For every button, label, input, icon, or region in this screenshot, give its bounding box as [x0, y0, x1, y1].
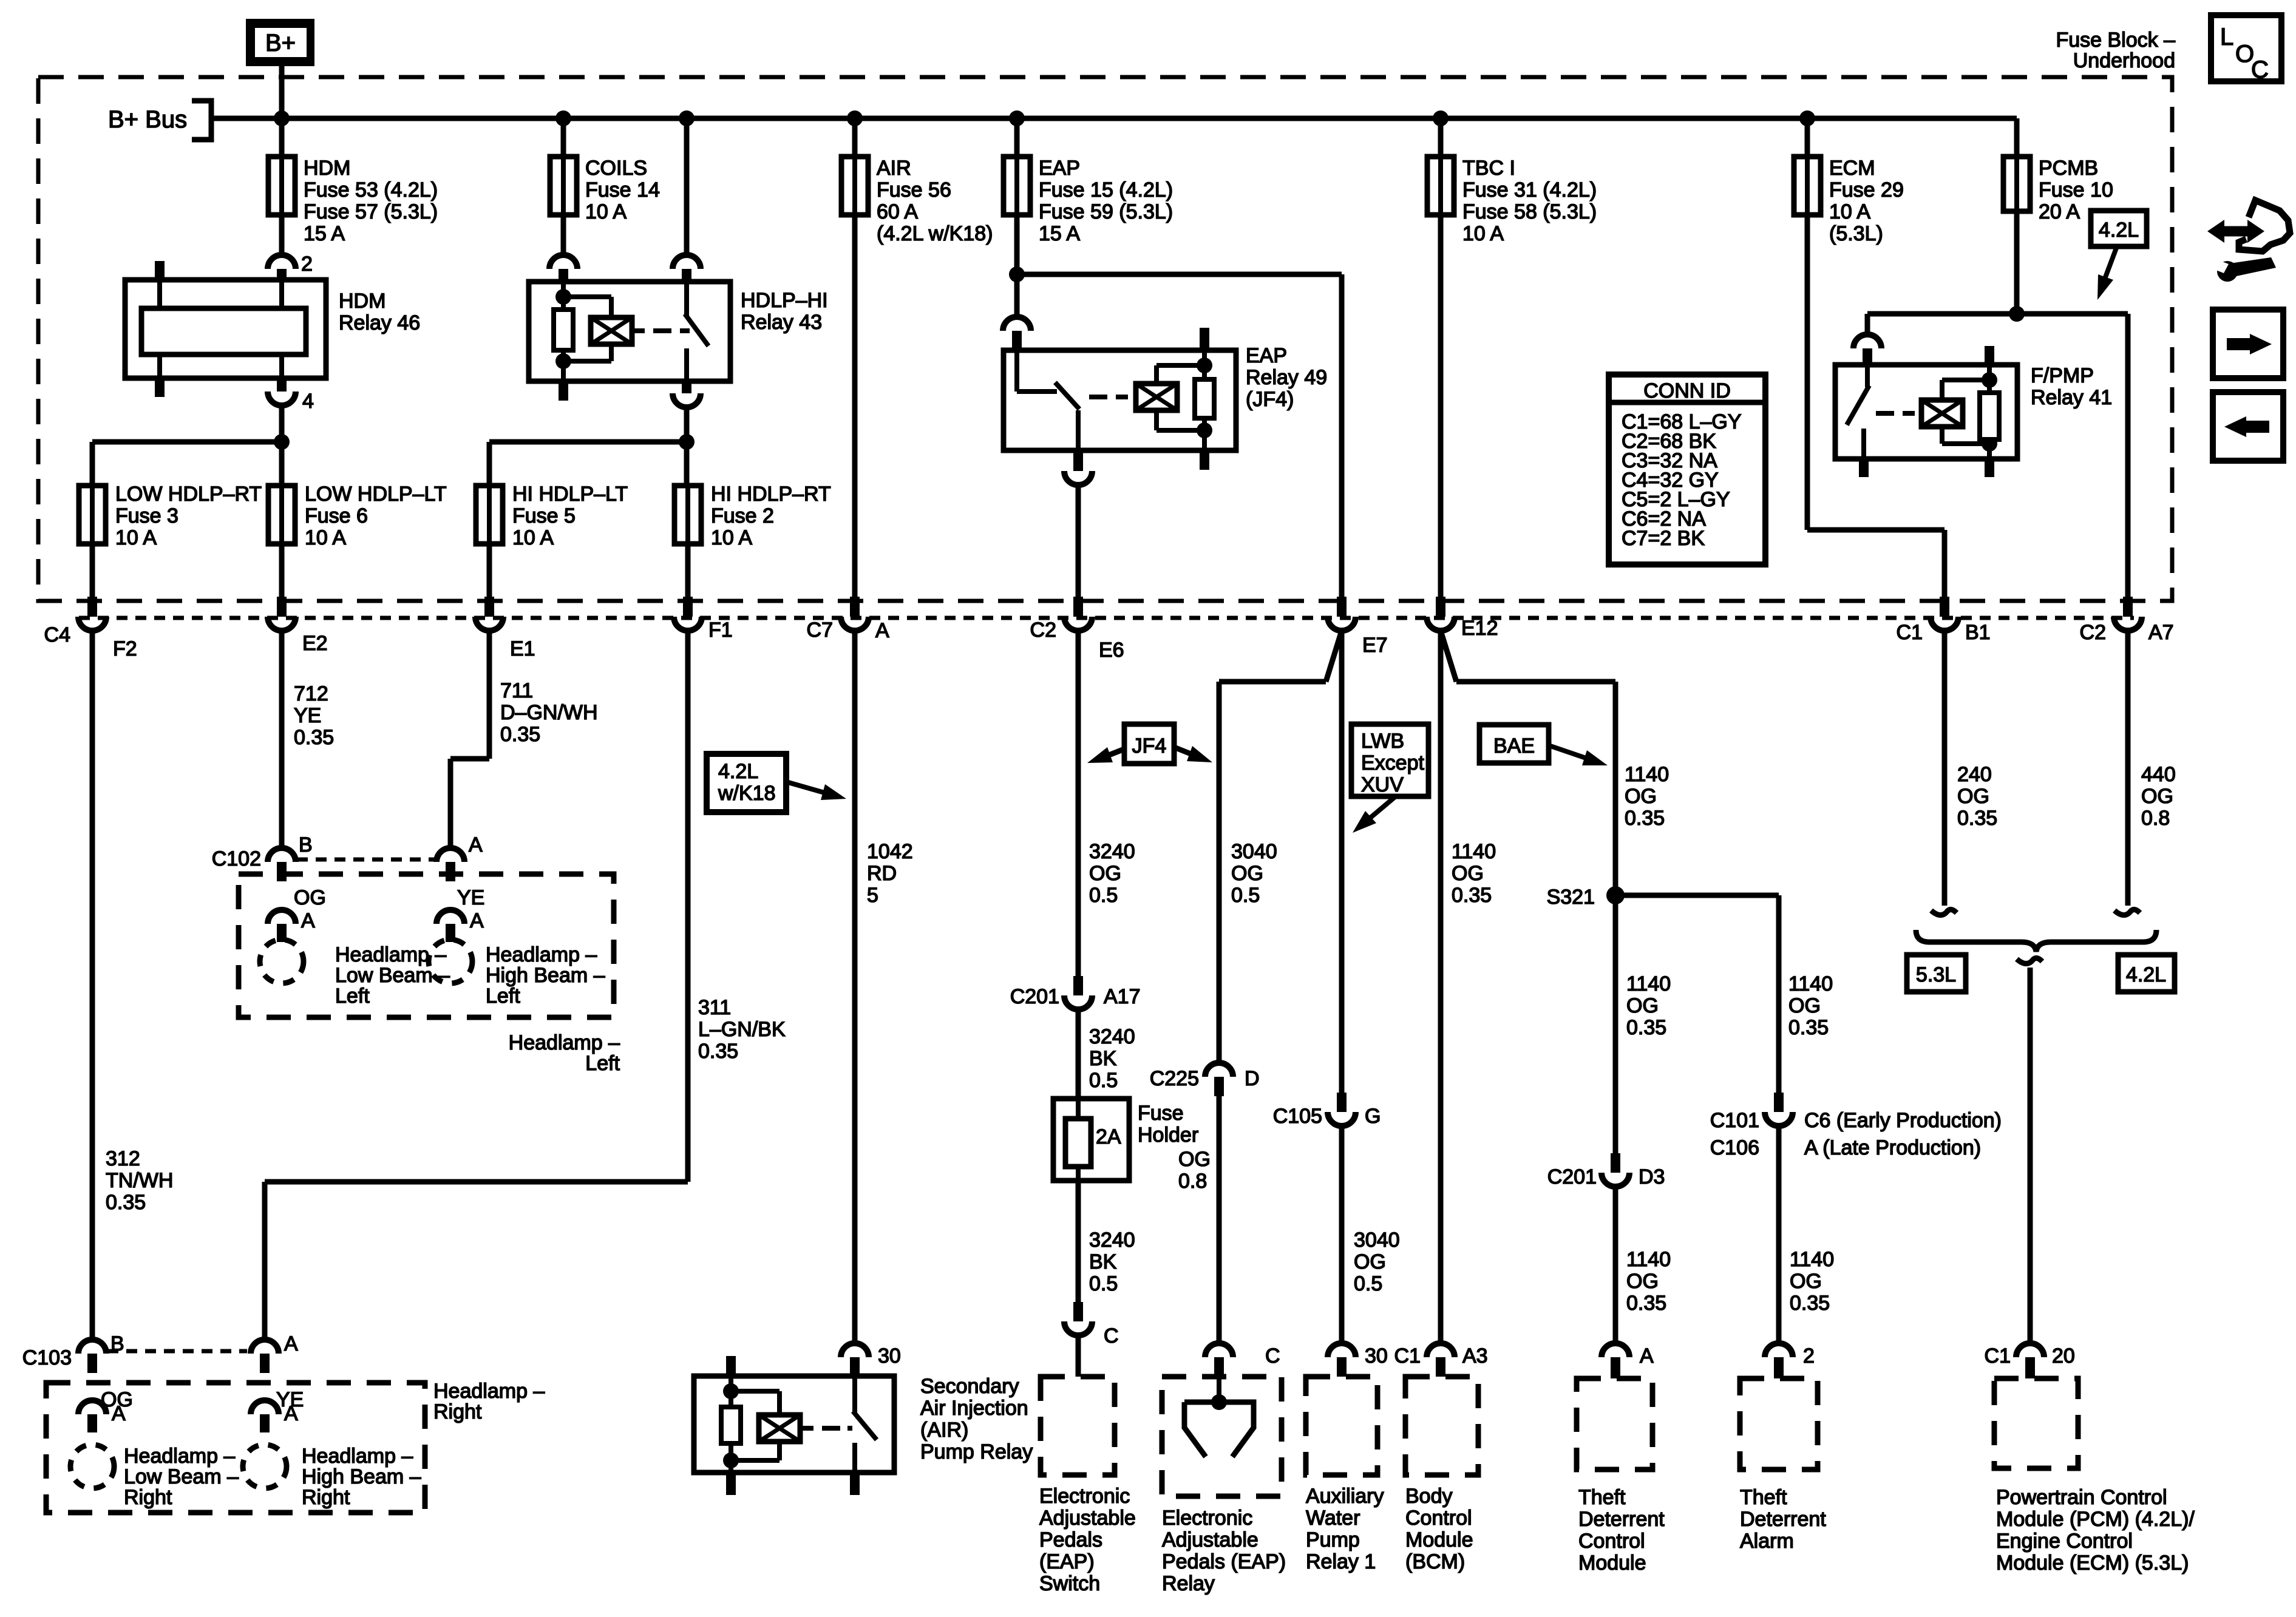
svg-text:HI HDLP–RT: HI HDLP–RT	[711, 483, 831, 506]
connector relay49 switch pin	[1003, 317, 1031, 331]
svg-text:OG: OG	[1788, 994, 1821, 1017]
svg-text:Relay 49: Relay 49	[1246, 366, 1327, 389]
resistor relay41 coil	[1987, 380, 1992, 393]
callout box 4.2L	[2091, 211, 2147, 246]
svg-text:20 A: 20 A	[2039, 200, 2080, 223]
svg-text:Theft: Theft	[1740, 1486, 1787, 1509]
svg-text:Fuse 15 (4.2L): Fuse 15 (4.2L)	[1039, 178, 1173, 202]
relay46 left pin inner	[157, 282, 162, 308]
svg-text:0.35: 0.35	[1626, 1016, 1666, 1039]
relay41 coil top stub	[1987, 365, 1992, 380]
svg-text:Fuse 29: Fuse 29	[1829, 178, 1904, 202]
wire 311 circuit	[685, 631, 691, 1182]
fuse LOW HDLP-LT Fuse 6	[268, 486, 295, 544]
svg-text:OG: OG	[1625, 785, 1657, 808]
svg-text:5.3L: 5.3L	[1916, 963, 1956, 986]
svg-text:30: 30	[1365, 1344, 1388, 1368]
node bus-EAP	[1009, 110, 1025, 126]
C102 dotted link	[297, 858, 435, 862]
wire ECM fuse down-jog	[1805, 215, 1810, 530]
connector AIR relay 30	[841, 1343, 869, 1357]
wire bus to relay43 switch	[684, 118, 690, 255]
svg-text:Holder: Holder	[1138, 1124, 1198, 1147]
svg-text:OG: OG	[1957, 785, 1989, 808]
svg-text:0.35: 0.35	[500, 723, 540, 746]
arrow 4.2L w/K18	[786, 782, 833, 795]
callout box BAE	[1479, 725, 1549, 763]
svg-text:B1: B1	[1965, 621, 1991, 644]
connector E7	[1337, 597, 1347, 617]
wire relay43 out down	[684, 407, 690, 442]
svg-text:C105: C105	[1273, 1105, 1322, 1128]
solenoid AIR relay	[759, 1415, 800, 1442]
wire EAP fuse down	[1014, 215, 1020, 274]
wire 3240 BK lower	[1076, 1181, 1081, 1302]
node PCMB split	[2009, 306, 2025, 322]
svg-text:0.5: 0.5	[1354, 1272, 1382, 1295]
connector C7 A	[850, 597, 860, 617]
svg-text:2A: 2A	[1096, 1125, 1121, 1148]
wire start hook PCM	[2017, 958, 2042, 963]
svg-text:1042: 1042	[867, 840, 913, 863]
svg-text:Headlamp –: Headlamp –	[124, 1445, 235, 1468]
relay41 switch	[1865, 365, 1870, 387]
svg-text:LOW HDLP–LT: LOW HDLP–LT	[305, 483, 447, 506]
svg-text:C: C	[1265, 1344, 1280, 1368]
connector relay49 output	[1073, 450, 1083, 471]
wire EAP to E7 column	[1017, 272, 1342, 277]
svg-text:BK: BK	[1089, 1250, 1117, 1273]
wire 3040 lower	[1339, 1126, 1345, 1343]
bulb headlamp high beam right	[243, 1445, 287, 1488]
connector low beam right A	[78, 1400, 106, 1414]
svg-text:Headlamp –: Headlamp –	[486, 943, 597, 966]
fuse AIR Fuse 56	[841, 157, 868, 215]
svg-text:0.35: 0.35	[698, 1040, 738, 1063]
svg-text:Alarm: Alarm	[1740, 1530, 1794, 1553]
connector relay43 switch pin	[673, 255, 701, 269]
svg-text:Fuse 58 (5.3L): Fuse 58 (5.3L)	[1462, 200, 1597, 223]
svg-text:0.5: 0.5	[1089, 884, 1118, 907]
svg-text:3240: 3240	[1089, 1229, 1135, 1252]
svg-text:(JF4): (JF4)	[1246, 388, 1294, 411]
svg-text:C1: C1	[1394, 1344, 1421, 1368]
svg-text:XUV: XUV	[1361, 773, 1404, 796]
relay43 coil wire	[561, 282, 566, 310]
wire fuse3 to border	[90, 544, 95, 597]
connector C102 A	[436, 848, 464, 862]
svg-text:A: A	[470, 909, 484, 932]
node relay49 coil top	[1197, 358, 1212, 373]
svg-text:0.35: 0.35	[1625, 807, 1665, 830]
connector C4 F2	[87, 597, 97, 617]
svg-text:3240: 3240	[1089, 840, 1135, 863]
svg-text:D–GN/WH: D–GN/WH	[500, 701, 598, 724]
svg-text:0.5: 0.5	[1089, 1272, 1118, 1295]
svg-text:20: 20	[2052, 1344, 2075, 1368]
svg-text:E6: E6	[1099, 639, 1124, 662]
svg-text:4.2L: 4.2L	[2126, 963, 2166, 986]
svg-text:30: 30	[878, 1344, 901, 1368]
svg-text:C: C	[2251, 56, 2269, 83]
svg-text:C7: C7	[807, 619, 833, 642]
svg-text:Fuse 10: Fuse 10	[2039, 178, 2113, 202]
svg-text:Water: Water	[1306, 1507, 1360, 1530]
connector C101 C106	[1774, 1093, 1784, 1112]
svg-text:Relay 43: Relay 43	[741, 311, 822, 334]
svg-text:Right: Right	[124, 1486, 172, 1509]
connector C225 D	[1205, 1063, 1233, 1077]
svg-text:F1: F1	[708, 619, 733, 642]
svg-text:1140: 1140	[1626, 1248, 1671, 1271]
AIR relay actuator dashes	[822, 1426, 840, 1431]
connector C2 A7	[2123, 597, 2133, 617]
svg-text:Switch: Switch	[1039, 1572, 1100, 1595]
svg-text:Fuse 2: Fuse 2	[711, 504, 774, 527]
AIR relay solenoid stub	[800, 1426, 813, 1431]
svg-text:LOW HDLP–RT: LOW HDLP–RT	[115, 483, 262, 506]
connector C103 B	[78, 1340, 106, 1354]
wire fuse5 to border	[487, 544, 492, 597]
svg-text:(BCM): (BCM)	[1405, 1550, 1465, 1573]
svg-text:Theft: Theft	[1578, 1486, 1626, 1509]
svg-text:C106: C106	[1710, 1136, 1759, 1159]
svg-text:Headlamp –: Headlamp –	[302, 1445, 413, 1468]
svg-text:C201: C201	[1010, 985, 1059, 1008]
svg-text:Except: Except	[1361, 751, 1424, 775]
svg-text:A: A	[284, 1332, 298, 1355]
connector high beam right A	[251, 1400, 279, 1414]
wire AIR fuse to border	[852, 215, 858, 597]
svg-text:YE: YE	[294, 704, 321, 727]
wire TBC fuse to border	[1438, 215, 1444, 597]
svg-text:A7: A7	[2148, 621, 2174, 644]
svg-text:712: 712	[294, 682, 328, 705]
svg-text:HDM: HDM	[339, 290, 385, 313]
svg-text:Relay 1: Relay 1	[1306, 1550, 1376, 1573]
wire EAP to relay49	[1014, 274, 1020, 317]
svg-text:Fuse 53 (4.2L): Fuse 53 (4.2L)	[304, 178, 438, 202]
B+ Bus bracket	[192, 101, 211, 140]
node relay41 coil top	[1982, 372, 1997, 388]
solenoid relay43	[591, 317, 632, 344]
relay41 coil bottom stub	[1987, 444, 1992, 459]
svg-text:Module (ECM) (5.3L): Module (ECM) (5.3L)	[1996, 1551, 2189, 1575]
wire PCMB fuse down	[2014, 211, 2020, 314]
module aux water pump box	[1306, 1377, 1377, 1475]
relay AIR pump relay box	[694, 1376, 894, 1473]
relay41 coil loop	[1940, 380, 1944, 400]
svg-text:3240: 3240	[1089, 1025, 1135, 1048]
svg-text:D: D	[1245, 1067, 1260, 1090]
svg-text:A3: A3	[1462, 1344, 1488, 1368]
solenoid relay49	[1136, 384, 1177, 410]
svg-text:Pump Relay: Pump Relay	[920, 1440, 1033, 1463]
connector 2 tda	[1765, 1343, 1793, 1357]
svg-text:A: A	[469, 833, 483, 856]
relay43 actuator dashes	[653, 328, 671, 333]
svg-text:OG: OG	[1626, 1270, 1659, 1293]
svg-text:G: G	[1365, 1105, 1381, 1128]
svg-text:Right: Right	[433, 1400, 482, 1423]
connector low beam left A	[268, 910, 296, 924]
wire COILS fuse to relay43 coil	[561, 215, 566, 255]
svg-text:C1: C1	[1985, 1344, 2011, 1368]
svg-text:Relay: Relay	[1162, 1572, 1215, 1595]
svg-text:15 A: 15 A	[1039, 222, 1080, 245]
connector E2	[277, 597, 287, 617]
svg-text:E12: E12	[1461, 617, 1498, 640]
connector C at EAP switch	[1073, 1302, 1083, 1321]
svg-text:(EAP): (EAP)	[1039, 1550, 1095, 1573]
fuse PCMB Fuse 10	[2003, 157, 2030, 211]
svg-text:60 A: 60 A	[877, 200, 918, 223]
svg-text:4.2L: 4.2L	[2099, 219, 2139, 242]
svg-text:Body: Body	[1405, 1485, 1453, 1508]
wire to PCM	[2028, 968, 2033, 1343]
AIR relay coil loop	[731, 1389, 779, 1394]
svg-text:BAE: BAE	[1493, 734, 1535, 758]
resistor relay43 coil	[554, 310, 573, 350]
node AIR coil top	[723, 1383, 739, 1399]
svg-text:B: B	[299, 833, 313, 856]
svg-text:D3: D3	[1639, 1165, 1665, 1188]
svg-text:L–GN/BK: L–GN/BK	[698, 1018, 786, 1041]
relay49 coil loop	[1154, 365, 1159, 384]
node AIR coil bottom	[723, 1453, 739, 1468]
svg-text:High Beam –: High Beam –	[486, 964, 605, 987]
connector aux pump 30	[1328, 1343, 1356, 1357]
connector C201 A17	[1073, 976, 1083, 995]
connector relay41 switch pin	[1853, 334, 1881, 348]
AIR relay coil wire	[729, 1376, 733, 1407]
svg-text:JF4: JF4	[1132, 734, 1167, 758]
relay41 switch bottom stub	[1859, 459, 1869, 477]
svg-text:(4.2L w/K18): (4.2L w/K18)	[877, 222, 993, 245]
wire end hook B1	[1931, 909, 1957, 915]
fuse HI HDLP-RT Fuse 2	[674, 486, 701, 544]
headlamp left dashed box	[239, 874, 614, 1017]
svg-text:Fuse 57 (5.3L): Fuse 57 (5.3L)	[304, 200, 438, 223]
svg-text:Air Injection: Air Injection	[920, 1397, 1028, 1420]
wire bus to AIR fuse	[852, 118, 858, 157]
svg-text:Adjustable: Adjustable	[1039, 1507, 1136, 1530]
callout box LWB Except XUV	[1351, 724, 1428, 796]
svg-text:Left: Left	[486, 985, 520, 1008]
wire 3240 OG upper	[1076, 631, 1081, 976]
svg-text:S321: S321	[1547, 886, 1595, 909]
svg-text:Low Beam –: Low Beam –	[335, 964, 450, 987]
svg-text:Fuse 14: Fuse 14	[585, 178, 660, 202]
svg-text:Fuse Block –: Fuse Block –	[2056, 29, 2175, 52]
svg-text:A: A	[875, 619, 889, 642]
svg-text:240: 240	[1957, 763, 1992, 786]
power symbol B+	[246, 19, 314, 66]
node relay49 coil bottom	[1197, 422, 1212, 438]
wire HDM fuse to relay 46 pin 2	[279, 215, 285, 255]
svg-text:Powertrain Control: Powertrain Control	[1996, 1486, 2167, 1509]
relay HDLP-HI Relay 43 box	[529, 282, 730, 381]
svg-text:OG: OG	[1089, 862, 1121, 885]
svg-text:Headlamp –: Headlamp –	[433, 1380, 545, 1403]
wire B+ to bus	[279, 66, 285, 118]
connector BCM C1 A3	[1427, 1343, 1455, 1357]
svg-text:Pedals (EAP): Pedals (EAP)	[1162, 1550, 1286, 1573]
relay HDM Relay 46 box	[125, 280, 326, 378]
svg-text:Module (PCM) (4.2L)/: Module (PCM) (4.2L)/	[1996, 1508, 2195, 1531]
svg-text:OG: OG	[1790, 1270, 1822, 1293]
wire E12 to S321	[1441, 631, 1456, 682]
connector E1	[484, 597, 494, 617]
node bus-relay43	[679, 110, 695, 126]
svg-text:0.35: 0.35	[1788, 1016, 1829, 1039]
node EAP relay internal	[1211, 1394, 1227, 1410]
relay F/PMP Relay 41 box	[1835, 365, 2017, 459]
relay41 actuator dashes	[1876, 411, 1894, 416]
module theft deterrent control box	[1577, 1378, 1652, 1470]
wire bus to COILS fuse	[561, 118, 566, 157]
wire fuse2 to border	[685, 544, 691, 597]
connector relay43 coil pin	[549, 255, 577, 269]
connector C1 B1	[1940, 597, 1949, 617]
node relay43 coil bottom	[555, 353, 571, 369]
wire B+ bus	[211, 116, 2017, 121]
svg-text:A: A	[1640, 1344, 1654, 1368]
svg-text:L: L	[2220, 24, 2233, 50]
svg-text:0.5: 0.5	[1089, 1069, 1118, 1092]
svg-text:10 A: 10 A	[711, 526, 752, 549]
svg-text:Fuse 31 (4.2L): Fuse 31 (4.2L)	[1462, 178, 1597, 202]
svg-text:HDLP–HI: HDLP–HI	[741, 289, 828, 312]
svg-text:E7: E7	[1362, 634, 1388, 657]
arrow LWB	[1361, 796, 1396, 825]
headlamp right dashed box	[46, 1383, 425, 1513]
module PCM box	[1994, 1378, 2078, 1468]
svg-text:440: 440	[2141, 763, 2176, 786]
AIR relay coil top stub	[726, 1356, 736, 1376]
connector C201 D3	[1611, 1153, 1620, 1173]
svg-text:Relay 41: Relay 41	[2031, 386, 2112, 409]
connector F1	[683, 597, 693, 617]
svg-text:OG: OG	[2141, 785, 2173, 808]
svg-text:OG: OG	[294, 886, 326, 909]
resistor relay49 coil	[1202, 365, 1207, 379]
svg-text:Adjustable: Adjustable	[1162, 1528, 1258, 1551]
wire bus corner to PCMB	[2014, 118, 2020, 157]
wire OG 0.8	[1217, 1096, 1222, 1343]
svg-text:1140: 1140	[1625, 763, 1669, 786]
svg-text:B+ Bus: B+ Bus	[108, 106, 187, 133]
wire relay49 out to border	[1076, 485, 1081, 597]
svg-text:OG: OG	[1231, 862, 1263, 885]
fuse COILS Fuse 14	[550, 157, 577, 215]
relay46 pin2 inner	[279, 282, 284, 308]
bulb headlamp high beam left	[429, 940, 472, 983]
node relay43 output	[679, 434, 695, 450]
svg-text:1140: 1140	[1790, 1248, 1834, 1271]
svg-text:HI HDLP–LT: HI HDLP–LT	[512, 483, 628, 506]
relay46 coil box	[141, 308, 306, 354]
module EAP relay box	[1162, 1377, 1282, 1496]
svg-text:ECM: ECM	[1829, 157, 1875, 180]
svg-text:Headlamp –: Headlamp –	[509, 1031, 620, 1054]
svg-text:10 A: 10 A	[1462, 222, 1504, 245]
svg-text:B+: B+	[265, 30, 296, 56]
svg-text:0.5: 0.5	[1231, 884, 1260, 907]
svg-text:A: A	[301, 909, 315, 932]
wire 1140 BCM	[1438, 631, 1444, 1343]
svg-text:EAP: EAP	[1039, 157, 1080, 180]
connector relay43 output	[682, 381, 691, 393]
svg-text:LWB: LWB	[1361, 730, 1404, 753]
fuse holder box	[1053, 1099, 1129, 1181]
svg-text:TN/WH: TN/WH	[106, 1169, 173, 1192]
svg-text:EAP: EAP	[1246, 344, 1287, 367]
svg-text:C: C	[1104, 1324, 1119, 1347]
connector high beam left A	[436, 910, 464, 924]
relay46 left pin top stub	[155, 261, 165, 280]
wire jumper to fuse5	[489, 439, 687, 445]
connector C102 B	[268, 848, 296, 862]
svg-text:OG: OG	[1354, 1250, 1386, 1273]
bulb headlamp low beam right	[70, 1445, 114, 1488]
svg-text:15 A: 15 A	[304, 222, 345, 245]
svg-text:0.35: 0.35	[1452, 884, 1492, 907]
svg-text:Fuse: Fuse	[1138, 1102, 1184, 1125]
svg-text:Control: Control	[1405, 1507, 1472, 1530]
svg-text:3040: 3040	[1231, 840, 1277, 863]
AIR relay switch	[852, 1376, 857, 1413]
svg-text:Engine Control: Engine Control	[1996, 1530, 2133, 1553]
svg-text:Fuse 59 (5.3L): Fuse 59 (5.3L)	[1039, 200, 1173, 223]
wire 240 OG	[1942, 631, 1948, 906]
relay EAP Relay 49 box	[1004, 350, 1236, 450]
module BCM box	[1405, 1377, 1478, 1475]
wire 312 circuit	[90, 631, 95, 1340]
fuse holder wire	[1076, 1099, 1081, 1181]
svg-text:Fuse 6: Fuse 6	[305, 504, 368, 527]
arrow JF4 left	[1107, 749, 1124, 756]
svg-text:10 A: 10 A	[115, 526, 157, 549]
svg-text:Fuse 56: Fuse 56	[877, 178, 951, 202]
wire bus to ECM fuse	[1805, 118, 1810, 157]
svg-text:C102: C102	[212, 847, 261, 870]
svg-text:Deterrent: Deterrent	[1740, 1508, 1826, 1531]
callout box 4.2L bottom	[2118, 955, 2175, 992]
fuse EAP Fuse 15/59	[1004, 157, 1030, 215]
wire to EAP switch	[1076, 1335, 1081, 1377]
node relay46 output	[274, 434, 290, 450]
fuse holder fuse 2A	[1065, 1119, 1091, 1167]
svg-text:OG: OG	[1452, 862, 1484, 885]
svg-text:A (Late Production): A (Late Production)	[1804, 1136, 1981, 1159]
svg-text:Relay 46: Relay 46	[339, 311, 420, 334]
svg-text:C103: C103	[22, 1346, 72, 1369]
svg-text:OG: OG	[1626, 994, 1659, 1017]
node bus-TBC	[1433, 110, 1449, 126]
svg-text:A: A	[112, 1402, 126, 1425]
wire EAP relay internal	[1217, 1377, 1221, 1402]
svg-text:E1: E1	[510, 637, 535, 660]
svg-text:0.8: 0.8	[1178, 1170, 1207, 1193]
svg-text:C7=2 BK: C7=2 BK	[1622, 527, 1705, 550]
svg-text:5: 5	[867, 884, 878, 907]
svg-text:C2: C2	[2080, 621, 2106, 644]
relay49 actuator dashes	[1089, 395, 1107, 399]
svg-text:711: 711	[500, 679, 533, 702]
fuse HDM Fuse 53/57	[268, 157, 295, 215]
wire relay43 to fuse2	[684, 442, 690, 486]
